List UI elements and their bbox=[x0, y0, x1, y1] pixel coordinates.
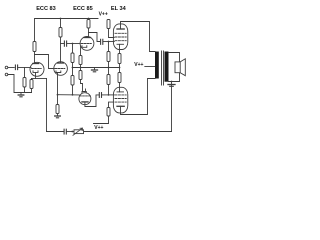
wire J2 to ground bus bbox=[8, 75, 32, 93]
resistor R14 (lower EL34 grid leak) bbox=[108, 68, 110, 75]
wire feedback left drop bbox=[46, 79, 48, 132]
capacitor C2 (coupling to phase splitter) bbox=[64, 41, 66, 46]
svg-text:V++: V++ bbox=[94, 125, 103, 131]
wire V1 cathode node bbox=[32, 78, 47, 80]
wire V3 cathode bbox=[80, 47, 82, 56]
resistor R2 (V1 grid leak) bbox=[24, 68, 26, 78]
wire feedback drop bbox=[171, 82, 173, 132]
resistor R4 (V2 plate load) bbox=[59, 28, 62, 38]
wire V3 plate column bbox=[88, 19, 90, 20]
triode V3 ECC85 upper bbox=[80, 37, 94, 51]
wire R1 to V1 anode bbox=[34, 52, 36, 63]
resistor R7 (V3 cathode) bbox=[79, 56, 82, 65]
resistor R1 (V1 plate load) bbox=[33, 42, 36, 52]
wire center tap bbox=[145, 66, 155, 68]
ground secondary bbox=[168, 85, 175, 87]
wire upper EL34 plate to OT bbox=[121, 22, 156, 52]
wire top V+ rail bbox=[35, 19, 99, 42]
ground input bbox=[18, 93, 24, 97]
wire secondary bottom bbox=[169, 73, 180, 82]
wire secondary top to speaker bbox=[169, 53, 180, 63]
transformer core bbox=[161, 51, 163, 85]
wire J1 to C1 bbox=[8, 67, 14, 69]
svg-text:V++: V++ bbox=[134, 62, 143, 68]
capacitor C5 (feedback) bbox=[64, 129, 66, 134]
resistor R15 (lower screen) bbox=[107, 108, 110, 117]
wire V4 grid feed bbox=[58, 94, 80, 96]
wire lower EL34 cathode bbox=[119, 83, 121, 92]
wire C1 to V1 grid bbox=[18, 67, 31, 69]
resistor R16 (V4 grid to ground) bbox=[57, 95, 59, 105]
svg-text:ECC 83: ECC 83 bbox=[36, 6, 56, 12]
svg-text:V++: V++ bbox=[99, 12, 108, 18]
wire screen to g2 bbox=[109, 29, 115, 38]
wire V4 anode to C4 bbox=[85, 95, 99, 107]
wire mid ground rail bbox=[73, 67, 120, 69]
transformer T1 secondary bbox=[165, 52, 169, 82]
wire V3 anode to C3 bbox=[89, 33, 100, 42]
speaker LS bbox=[175, 59, 185, 76]
wire C2 node bbox=[61, 43, 64, 45]
potentiometer P1 (feedback trim) bbox=[73, 128, 84, 135]
wire V1 anode to V2 grid bbox=[35, 55, 55, 69]
resistor R8 (V4 cathode) bbox=[80, 68, 82, 71]
wire V4 cathode stub bbox=[85, 89, 87, 92]
resistor R11 (upper screen) bbox=[107, 20, 110, 29]
wire lower screen bbox=[109, 102, 114, 107]
input terminal J1 bbox=[5, 66, 8, 69]
transformer T1 primary bbox=[155, 52, 159, 79]
input terminal J2 bbox=[5, 73, 8, 76]
resistor R6 (divider lower) bbox=[72, 68, 74, 76]
wire upper EL34 cathode bbox=[119, 44, 121, 53]
resistor R3 (V1 cathode) bbox=[31, 79, 33, 80]
resistor R12 (upper cathode) bbox=[118, 54, 121, 64]
capacitor C4 (to lower EL34 grid) bbox=[99, 93, 101, 98]
triode V1 ECC83 bbox=[30, 62, 44, 78]
ground mid rail bbox=[92, 68, 98, 72]
resistor R5 (divider upper) bbox=[72, 44, 74, 54]
pentode V6 EL34 lower bbox=[113, 87, 127, 113]
svg-text:ECC 85: ECC 85 bbox=[73, 6, 93, 12]
capacitor C1 (input coupling) bbox=[15, 65, 17, 70]
triode V4 ECC85 lower bbox=[79, 92, 91, 105]
capacitor C3 (to upper EL34 grid) bbox=[101, 39, 103, 44]
resistor R13 (lower cathode) bbox=[118, 73, 121, 83]
svg-text:EL 34: EL 34 bbox=[111, 6, 127, 12]
ground V4 grid resistor bbox=[55, 114, 61, 118]
wire lower EL34 plate to OT bbox=[121, 79, 156, 115]
triode V2 ECC83 bbox=[54, 62, 68, 95]
wire V2 plate column bbox=[60, 19, 62, 28]
wire bottom feedback rail bbox=[47, 131, 64, 133]
resistor R9 (V3 plate load) bbox=[87, 20, 90, 29]
resistor R10 (upper EL34 grid leak) bbox=[108, 42, 110, 52]
pentode V5 EL34 upper bbox=[113, 24, 127, 50]
